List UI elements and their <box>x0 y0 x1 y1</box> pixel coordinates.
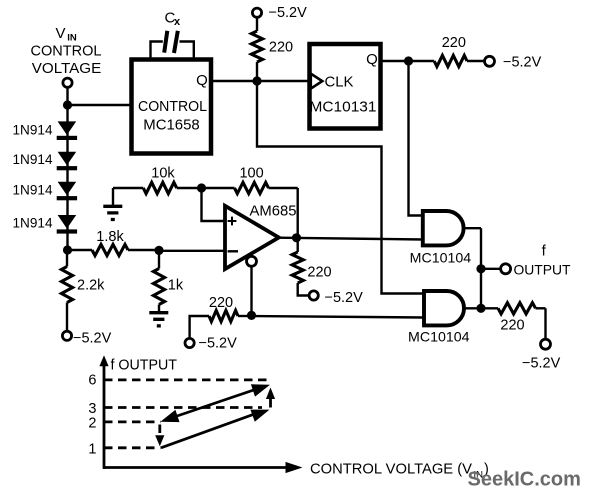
svg-text:CONTROL: CONTROL <box>138 98 207 115</box>
svg-text:−5.2V: −5.2V <box>269 5 308 21</box>
svg-text:2: 2 <box>88 416 96 432</box>
svg-text:−5.2V: −5.2V <box>325 290 364 306</box>
svg-text:220: 220 <box>442 35 466 51</box>
svg-text:2.2k: 2.2k <box>77 278 105 294</box>
svg-text:−5.2V: −5.2V <box>522 356 561 372</box>
svg-text:OUTPUT: OUTPUT <box>514 262 571 278</box>
svg-text:CONTROL: CONTROL <box>31 44 102 60</box>
svg-text:1N914: 1N914 <box>13 214 53 230</box>
svg-text:220: 220 <box>209 295 233 311</box>
svg-text:Q: Q <box>196 72 208 89</box>
svg-text:1k: 1k <box>168 278 184 294</box>
svg-text:SeekIC.com: SeekIC.com <box>468 469 581 491</box>
svg-text:Q: Q <box>366 51 378 68</box>
svg-text:MC10104: MC10104 <box>410 249 472 265</box>
svg-text:−5.2V: −5.2V <box>503 55 542 71</box>
svg-text:MC10131: MC10131 <box>310 99 377 116</box>
svg-text:VOLTAGE: VOLTAGE <box>32 61 102 77</box>
svg-text:x: x <box>174 16 181 28</box>
svg-text:1N914: 1N914 <box>13 151 53 167</box>
svg-text:−5.2V: −5.2V <box>199 336 238 352</box>
svg-text:MC10104: MC10104 <box>408 329 470 345</box>
svg-text:−5.2V: −5.2V <box>73 331 112 347</box>
svg-text:1N914: 1N914 <box>13 182 53 198</box>
svg-text:AM685: AM685 <box>250 203 297 220</box>
svg-text:100: 100 <box>239 166 263 182</box>
svg-text:1: 1 <box>88 442 96 458</box>
svg-text:220: 220 <box>307 265 331 281</box>
svg-text:220: 220 <box>269 40 293 56</box>
svg-text:6: 6 <box>88 373 96 389</box>
svg-text:CLK: CLK <box>325 74 354 91</box>
svg-text:f OUTPUT: f OUTPUT <box>111 358 178 374</box>
svg-text:MC1658: MC1658 <box>143 117 200 134</box>
svg-text:10k: 10k <box>151 166 175 182</box>
svg-text:IN: IN <box>67 33 77 44</box>
svg-text:220: 220 <box>500 318 524 334</box>
svg-text:V: V <box>56 25 66 42</box>
svg-text:1.8k: 1.8k <box>96 229 124 245</box>
svg-text:CONTROL VOLTAGE (V: CONTROL VOLTAGE (V <box>310 462 472 478</box>
svg-text:1N914: 1N914 <box>13 122 53 138</box>
